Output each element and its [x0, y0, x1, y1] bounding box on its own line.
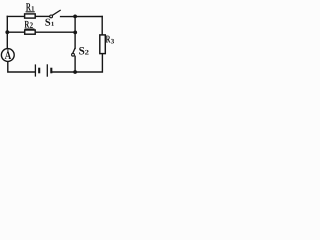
ammeter letter A [5, 52, 12, 60]
switch S1 ring terminal [50, 15, 53, 18]
ammeter pointer [7, 49, 9, 53]
wire middle branch upper [74, 16, 76, 48]
label R1 [26, 3, 31, 10]
resistor R3 [100, 35, 106, 54]
wire middle branch lower [74, 56, 76, 72]
wire S1 to top-right corner [61, 16, 103, 18]
resistor R1 [25, 14, 36, 18]
battery cell2 long plate [46, 64, 48, 76]
battery cell1 short plate [38, 68, 40, 74]
resistor R2 [25, 30, 36, 34]
label S1 [45, 19, 50, 26]
ammeter A [1, 49, 14, 62]
node bottom junction [73, 70, 77, 74]
node middle junction [73, 31, 77, 35]
wire top-left: left node to R1 [7, 15, 24, 17]
wire right rail top [101, 17, 103, 35]
label R3 [106, 36, 111, 43]
node left junction [5, 30, 9, 34]
label R2 [25, 21, 30, 28]
underline under R1 [26, 11, 35, 13]
switch S2 blade [73, 48, 75, 53]
underline under R2 [25, 28, 35, 30]
switch S1 blade [52, 10, 61, 15]
battery cell2 short plate [50, 68, 52, 74]
wire R1 to S1 ring [35, 15, 50, 17]
wire battery to bottom-right corner [52, 54, 102, 72]
wire R2 to middle node [35, 31, 75, 33]
label S2 [79, 47, 84, 55]
switch S2 ring terminal [72, 53, 75, 56]
wire R2 branch left [7, 31, 24, 33]
battery cell1 long plate [34, 64, 36, 76]
wire ammeter to bottom-left corner [8, 61, 35, 72]
wire left rail [6, 16, 8, 48]
node top junction [73, 15, 77, 19]
